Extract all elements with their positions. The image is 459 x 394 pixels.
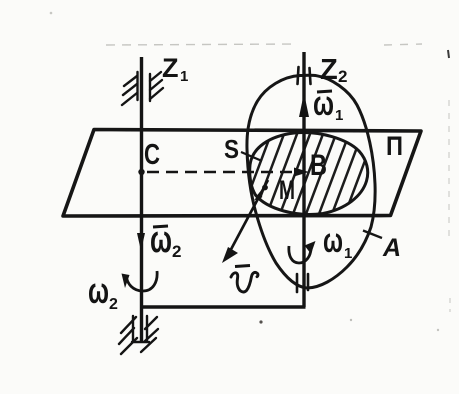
section S hatching bbox=[238, 126, 391, 222]
svg-text:ω: ω bbox=[323, 222, 343, 260]
vector omega2 arrowhead (down along Z1) bbox=[137, 233, 145, 251]
svg-text:Z: Z bbox=[320, 54, 338, 86]
svg-text:ω: ω bbox=[313, 85, 334, 123]
label omega1 bar (top) bbox=[317, 91, 332, 92]
body A outline bbox=[247, 75, 375, 288]
point C dot bbox=[138, 169, 144, 175]
svg-text:S: S bbox=[224, 134, 239, 164]
plane П parallelogram bbox=[63, 130, 421, 217]
svg-text:A: A bbox=[382, 234, 401, 262]
label v bar (script theta with macron) bbox=[231, 272, 258, 292]
svg-text:2: 2 bbox=[172, 242, 181, 261]
svg-text:2: 2 bbox=[338, 67, 347, 86]
svg-text:B: B bbox=[310, 149, 327, 182]
bearing support on Z1 (bottom) bbox=[119, 316, 158, 354]
svg-text:1: 1 bbox=[180, 68, 188, 85]
bearing support on Z1 (top) bbox=[122, 72, 163, 105]
link line between axes bbox=[140, 305, 306, 308]
point M dot and tail bbox=[262, 185, 268, 191]
rotation arc omega1 on Z2 bbox=[289, 246, 311, 263]
rotation arc omega2 on Z1 bbox=[126, 271, 157, 291]
bearing ticks on Z2 bottom bbox=[297, 274, 308, 292]
axis Z1 bbox=[140, 57, 143, 343]
faint scan artifact: right page-edge dashes bbox=[449, 100, 450, 312]
faint scan artifact: top dashed line bbox=[106, 44, 422, 45]
svg-text:C: C bbox=[144, 139, 160, 171]
leader line to label A bbox=[363, 231, 382, 239]
dashed segment CB bbox=[147, 171, 296, 174]
velocity vector v bbox=[228, 180, 268, 255]
bearing ticks on Z2 top bbox=[298, 67, 311, 84]
vector omega1 arrowhead (up along Z2) bbox=[299, 93, 309, 117]
svg-text:Z: Z bbox=[162, 53, 179, 83]
svg-text:П: П bbox=[386, 131, 403, 161]
faint scan artifact: small tick top-right bbox=[448, 50, 449, 58]
faint scan artifact: small dots bbox=[50, 12, 53, 15]
svg-text:1: 1 bbox=[335, 107, 343, 124]
section S outline bbox=[250, 133, 368, 215]
svg-text:2: 2 bbox=[109, 296, 118, 313]
arrowhead at B bbox=[294, 168, 309, 177]
svg-text:ω: ω bbox=[88, 270, 109, 311]
label omega2 bar bbox=[153, 226, 168, 227]
svg-text:ω: ω bbox=[150, 219, 172, 261]
svg-text:1: 1 bbox=[344, 245, 352, 262]
leader from label S bbox=[241, 152, 262, 161]
svg-text:M: M bbox=[279, 175, 295, 205]
axis Z2 bbox=[302, 52, 305, 307]
